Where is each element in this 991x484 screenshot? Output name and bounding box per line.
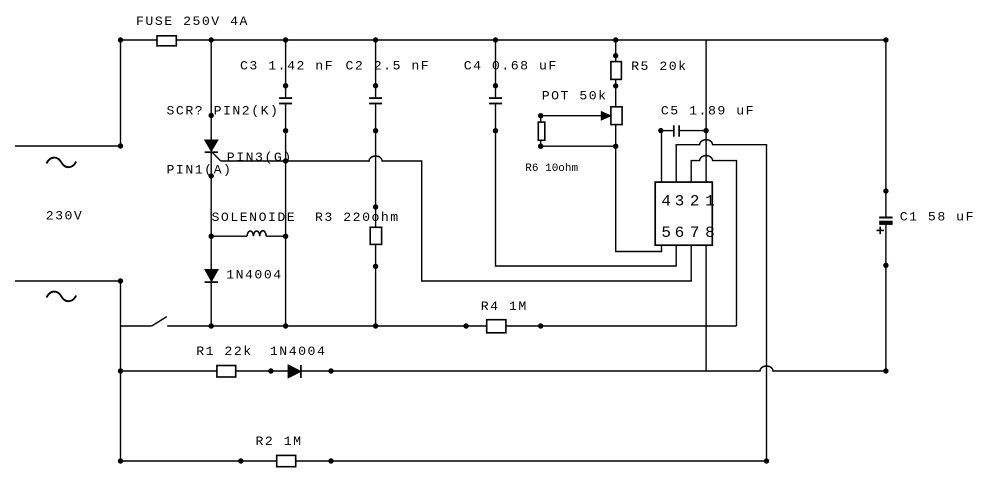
svg-text:FUSE 250V 4A: FUSE 250V 4A (136, 14, 249, 29)
svg-text:1N4004: 1N4004 (270, 344, 326, 359)
svg-text:1N4004: 1N4004 (226, 267, 282, 282)
wire: SCR anode to solenoid node (210, 152, 212, 269)
node: R1 wire / C1 branch (883, 368, 888, 373)
node: D2 anode terminal (268, 368, 273, 373)
node: C4 bottom terminal (493, 128, 498, 133)
wire: R5 to POT (615, 79, 617, 106)
wire: C3 branch upper lead (285, 40, 287, 97)
svg-text:C4 0.68 uF: C4 0.68 uF (464, 59, 558, 74)
node: R2 right terminal (328, 458, 333, 463)
wire: IC pin 8 down to R1 wire (705, 245, 707, 371)
capacitor C3 1.42 nF (240, 59, 334, 104)
diode D1 1N4004 (vertical) (205, 267, 283, 282)
wire: C2 branch upper lead (375, 40, 377, 97)
inductor SOLENOIDE (211, 210, 296, 236)
node: solenoid right / C3 branch (283, 234, 288, 239)
diode D2 1N4004 (horizontal) (270, 344, 326, 378)
node: D2 cathode terminal (328, 368, 333, 373)
node: upper AC lead / left rail (118, 143, 123, 148)
node: C5 right / pin1 line junction (703, 128, 708, 133)
svg-text:R6 10ohm: R6 10ohm (525, 163, 578, 175)
AC source V1 230V upper tilde (47, 158, 77, 168)
node: D1 branch / switch wire (209, 323, 214, 328)
potentiometer POT 50k (542, 89, 622, 125)
switch SW1 (121, 317, 167, 326)
wire: IC pin 1 up to top rail (705, 40, 707, 182)
wire: left rail upper drop (120, 40, 122, 146)
svg-text:R4 1M: R4 1M (481, 299, 528, 314)
resistor R3 220ohm (315, 210, 400, 244)
node: C2 bottom terminal (373, 128, 378, 133)
thyristor SCR1 (205, 140, 221, 161)
wire: SCR branch upper (cathode) (210, 40, 212, 140)
svg-text:SCR? PIN2(K): SCR? PIN2(K) (167, 104, 280, 119)
wiper arrow of POT (541, 112, 611, 120)
wire: R5 branch top lead (615, 40, 617, 62)
node: R6 bottom terminal (538, 144, 543, 149)
capacitor C2 2.5 nF (346, 59, 431, 104)
svg-text:4: 4 (661, 192, 671, 210)
wire: C4 lower lead down then right to IC pin 6 (496, 104, 677, 266)
node: top rail / C4 branch (493, 37, 498, 42)
svg-text:3: 3 (675, 192, 685, 210)
wire: R1 to D2 (236, 370, 288, 372)
wire: switch wire to R4 (167, 325, 487, 327)
svg-text:5: 5 (661, 224, 671, 242)
wire: C1 lower lead (885, 225, 887, 371)
svg-text:PIN3(G): PIN3(G) (227, 150, 293, 165)
svg-text:7: 7 (690, 224, 700, 242)
node: SCR cathode terminal (209, 113, 214, 118)
svg-text:C2 2.5 nF: C2 2.5 nF (346, 59, 431, 74)
wire: bottom wire left segment (121, 460, 277, 462)
svg-text:C3 1.42 nF: C3 1.42 nF (240, 59, 334, 74)
resistor R1 22k (196, 344, 252, 377)
svg-text:POT 50k: POT 50k (542, 89, 608, 104)
svg-text:1: 1 (705, 192, 715, 210)
svg-text:230V: 230V (46, 208, 84, 223)
node: C2 top terminal (373, 83, 378, 88)
node: C1 top terminal (883, 188, 888, 193)
capacitor C1 58 uF (electrolytic) (877, 210, 976, 235)
node: C3 branch / gate wire junction (283, 158, 288, 163)
node: C4 top terminal (493, 83, 498, 88)
wire: C1 branch upper lead (885, 40, 887, 217)
wire: POT bottom down then right up to IC pin 5 (616, 146, 662, 251)
node: R3 branch / switch wire (373, 323, 378, 328)
node: top rail / SCR branch (209, 37, 214, 42)
AC source V1 230V lower tilde (47, 292, 77, 302)
node: R3 bottom terminal (373, 264, 378, 269)
svg-text:6: 6 (675, 224, 685, 242)
node: top rail / R5 branch (613, 37, 618, 42)
resistor R4 1M (481, 299, 528, 333)
node: R5 bottom terminal (613, 83, 618, 88)
svg-text:8: 8 (705, 224, 715, 242)
resistor R2 1M (256, 434, 303, 467)
node: C5 left terminal (658, 128, 663, 133)
wire: D2 cathode wire with hop over drop (301, 366, 886, 371)
wire: top rail (121, 39, 886, 41)
svg-text:R2 1M: R2 1M (256, 434, 303, 449)
svg-text:C5 1.89 uF: C5 1.89 uF (661, 104, 755, 119)
resistor R6 10ohm (525, 116, 578, 175)
wire: C3 branch lower lead down to switch wire (285, 104, 287, 326)
node: POT bottom terminal (613, 144, 618, 149)
wire: AC source upper lead (15, 145, 121, 147)
capacitor C5 1.89 uF (661, 104, 755, 137)
wire: D1 cathode to switch wire (210, 282, 212, 326)
wire: left rail lower (120, 281, 122, 461)
node: wiper / R6 top (538, 113, 543, 118)
svg-text:R5 20k: R5 20k (631, 59, 687, 74)
node: top rail / C1 branch (883, 37, 888, 42)
op-amp U1 (IC box) (655, 182, 715, 245)
node: top rail / left rail (118, 37, 123, 42)
node: C1 bottom terminal (883, 263, 888, 268)
wire: gate net from SCR to IC pin 7 (221, 156, 691, 281)
node: C3 bottom terminal (283, 128, 288, 133)
node: C3 top terminal (283, 83, 288, 88)
node: anode / solenoid junction (209, 234, 214, 239)
wire: IC pin 2 up then right to vertical drop (691, 156, 736, 326)
resistor R5 20k (611, 59, 688, 79)
svg-text:C1 58 uF: C1 58 uF (900, 210, 975, 225)
svg-text:R1 22k: R1 22k (196, 344, 252, 359)
wire: R1 wire left segment (121, 370, 217, 372)
node: R2 left terminal (238, 458, 243, 463)
fuse F1 250V 4A (136, 14, 249, 46)
wire: R4 to pin2 drop corner (506, 325, 737, 327)
wire: POT lower lead (615, 125, 617, 147)
svg-text:SOLENOIDE: SOLENOIDE (212, 210, 297, 225)
wire: R6 bottom to POT bottom (541, 145, 616, 147)
node: lower AC lead / left rail (118, 278, 123, 283)
svg-text:R3 220ohm: R3 220ohm (315, 210, 400, 225)
node: top rail / C2 branch (373, 37, 378, 42)
node: R4 left terminal (463, 323, 468, 328)
node: R5 top terminal (613, 53, 618, 58)
wire: C4 branch upper lead (495, 40, 497, 97)
node: R4 right terminal (538, 323, 543, 328)
svg-text:PIN1(A): PIN1(A) (167, 163, 233, 178)
node: top rail / C3 branch (283, 37, 288, 42)
capacitor C4 0.68 uF (464, 59, 558, 104)
wire: AC source lower lead (15, 280, 121, 282)
wire: R3 lower lead to switch wire (375, 244, 377, 326)
wire: C5 left down to IC pin 4 (661, 131, 663, 183)
svg-text:2: 2 (690, 192, 700, 210)
wire: C2 branch lower lead down to R3 (375, 104, 377, 227)
node: C3 branch / switch wire (283, 323, 288, 328)
node: bottom wire / pin3 drop (764, 458, 769, 463)
node: SCR anode terminal (209, 173, 214, 178)
node: R1 wire / left rail (118, 368, 123, 373)
node: R3 top terminal (373, 204, 378, 209)
wire: bottom wire right segment (296, 460, 767, 462)
wire: IC pin 3 up then right to vertical drop (676, 140, 766, 461)
node: bottom wire / left rail (118, 458, 123, 463)
